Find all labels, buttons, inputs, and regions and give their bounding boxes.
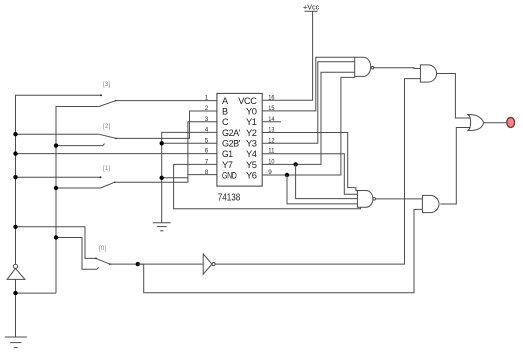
junction rail A / G1 wire (13, 151, 17, 155)
wire Y0 pin 15 to NAND U3 input 1 (262, 57, 355, 111)
probe X1 (red indicator) (507, 118, 515, 128)
junction Y5 branch (293, 162, 297, 166)
wire Y3 pin 12 to NAND U3 input 2 (262, 62, 355, 144)
svg-text:[3]: [3] (103, 81, 110, 88)
power common symbol (circle + triangle) on rail A (7, 264, 25, 279)
junction G2A'/G2B' node (160, 141, 164, 145)
junction rail B / S1 feed (54, 235, 58, 239)
wire U7 output to probe (484, 122, 507, 124)
AND gate U5 (top) (420, 65, 436, 82)
switch S2 key [1] (16, 165, 116, 188)
wire Y5 branch to NAND U4 input 3 (296, 164, 358, 198)
svg-text:Y2: Y2 (246, 128, 257, 138)
svg-text:[2]: [2] (103, 123, 110, 130)
svg-text:G2A': G2A' (222, 128, 241, 138)
svg-text:[1]: [1] (103, 165, 110, 172)
wire S3 pole to U1 pin 2 B (116, 111, 217, 138)
wire U5 output to OR U7 input 1 (437, 74, 471, 119)
junction Y6 branch (285, 173, 289, 177)
wire S4 pole to U1 pin 1 A (116, 100, 218, 102)
svg-text:Y1: Y1 (246, 117, 257, 127)
wire Y6 branch to NAND U4 input 4 (287, 175, 357, 204)
svg-text:2: 2 (205, 105, 209, 112)
wire S2 pole to U1 pin 3 C (115, 122, 218, 182)
svg-text:G2B': G2B' (222, 139, 241, 149)
OR gate U7 (468, 115, 484, 131)
svg-text:B: B (222, 106, 228, 116)
svg-text:Y4: Y4 (246, 149, 257, 159)
junction rail A / S2 throw (13, 175, 17, 179)
svg-text:[0]: [0] (99, 245, 106, 252)
junction rail B / S2 throw (54, 186, 58, 190)
wire Y6 pin 9 to NAND U3 input 4 (262, 76, 355, 175)
wire U1 pin 6 G1 to rail A (16, 153, 218, 155)
svg-text:Y5: Y5 (246, 160, 257, 170)
switch S1 key [0] (16, 227, 111, 269)
junction gnd node (160, 176, 164, 180)
junction rail A / S1 feed (13, 225, 17, 229)
wire +Vcc to U1 pin 16 VCC (262, 11, 313, 100)
svg-text:VCC: VCC (238, 96, 257, 106)
junction rail B / S3 throw (54, 143, 58, 147)
wire U6 output to OR U7 input 2 (440, 128, 470, 205)
wire U3 output to AND U5 input 1 (374, 67, 421, 70)
switch S3 key [2] (16, 123, 117, 146)
wire Y4 pin 11 to NAND U4 input 2 (262, 154, 357, 195)
IC U1 74138 body (217, 93, 262, 186)
switch S4 key [3] (99, 81, 117, 107)
svg-text:G1: G1 (222, 149, 233, 159)
svg-text:GND: GND (222, 170, 237, 180)
wire Y2 pin 13 to NAND U4 input 1 (262, 133, 357, 191)
svg-text:Y6: Y6 (246, 170, 257, 180)
wire bus rail B (second vertical rail) (56, 107, 99, 294)
AND gate U6 (bottom) (422, 195, 439, 212)
svg-text:C: C (222, 117, 229, 127)
svg-text:3: 3 (205, 116, 209, 123)
svg-text:1: 1 (205, 95, 209, 102)
NAND gate U4 (5-input, bottom) (357, 191, 375, 208)
wire gnd node horizontal (162, 177, 188, 179)
ground GND1 (bottom left) (5, 337, 27, 348)
ground GND2 (below U1) (153, 223, 171, 231)
wire U4 output to AND U6 input 1 (376, 198, 423, 200)
junction rail A / S3 throw (13, 132, 17, 136)
wire S1 pole to node D (110, 263, 203, 265)
wire node D to AND2 input 2 (lower run) (138, 209, 423, 292)
svg-text:Y0: Y0 (246, 106, 257, 116)
wire Y5 pin 10 to NAND U3 input 3 (262, 72, 355, 164)
wire bus rail A (left vertical rail) (16, 95, 102, 337)
power +Vcc symbol (303, 2, 320, 11)
svg-text:74138: 74138 (218, 193, 241, 204)
svg-text:Y7: Y7 (222, 160, 233, 170)
wire Y1 pin 14 stub (262, 121, 281, 123)
NAND gate U3 (4-input, top) (355, 57, 374, 76)
wire Y7 pin 7 to NAND U4 input 5 (174, 164, 361, 208)
svg-text:+Vcc: +Vcc (303, 2, 320, 11)
wire U1 pin 4 G2A' tie (162, 132, 218, 222)
wire U1 pin 5 G2B' tie (162, 142, 218, 144)
svg-text:Y3: Y3 (246, 139, 257, 149)
node D junction (switch S1 output) (136, 262, 140, 266)
wire U2 output to AND1 input 2 riser (215, 79, 420, 265)
wire U1 pin 8 GND stub (188, 174, 217, 176)
wire rail A to rail B bottom link (16, 292, 57, 294)
junction rail A bottom (13, 291, 17, 295)
inverter U2 (203, 254, 215, 274)
